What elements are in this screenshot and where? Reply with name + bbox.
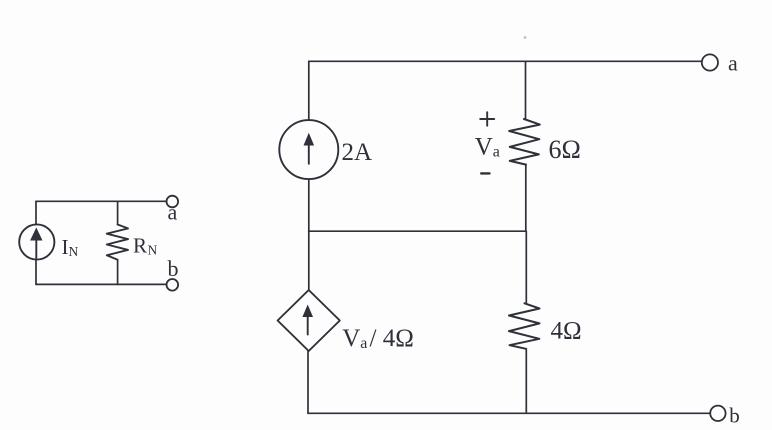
wire: middle horizontal (node between branches) <box>309 230 526 232</box>
wire: resistor branch vertical below 4ohm <box>525 349 527 414</box>
wire: left branch vertical below 2A source <box>308 179 310 231</box>
svg-text:b: b <box>168 256 179 281</box>
svg-text:6Ω: 6Ω <box>549 135 581 164</box>
wire: resistor branch vertical between middle node and 4ohm <box>525 231 527 303</box>
label Va / 4ohm <box>342 325 414 352</box>
wire: left circuit left vertical (top segment above source) <box>35 201 37 224</box>
label - (bottom of Va) <box>481 172 489 174</box>
label 2A <box>342 139 373 166</box>
wire: left circuit bottom horizontal <box>36 283 167 285</box>
terminal a (left circuit, open circle) <box>167 196 179 208</box>
label b (left circuit) <box>168 256 179 281</box>
svg-text:b: b <box>729 404 740 428</box>
wire: left branch vertical above 2A source <box>308 61 310 120</box>
label 6ohm <box>549 135 581 164</box>
label a (right circuit) <box>728 51 738 76</box>
svg-text:a: a <box>728 51 738 76</box>
dependent current source Va/4 (diamond with up arrow) <box>278 290 340 351</box>
svg-text:/: / <box>370 325 377 352</box>
svg-text:I: I <box>62 235 69 259</box>
current source 2A (circle with up arrow) <box>279 120 338 179</box>
resistor 6ohm (zigzag) <box>509 119 540 165</box>
wire: left circuit left vertical (below source) <box>35 260 37 285</box>
terminal b (left circuit, open circle) <box>167 279 179 291</box>
svg-text:N: N <box>69 244 79 259</box>
label RN <box>133 234 158 258</box>
terminal b (right circuit, open circle) <box>710 406 725 421</box>
svg-text:a: a <box>493 144 500 161</box>
label Va <box>475 134 500 161</box>
wire: left circuit resistor branch bottom lead <box>117 260 119 285</box>
svg-text:4Ω: 4Ω <box>383 325 414 352</box>
svg-text:V: V <box>342 325 360 352</box>
wire: resistor branch vertical between 6ohm and middle node <box>525 165 527 232</box>
svg-text:R: R <box>133 234 147 258</box>
resistor 4ohm (zigzag) <box>509 303 540 349</box>
svg-text:V: V <box>475 134 493 161</box>
current source IN (circle with up arrow) <box>19 224 54 259</box>
svg-text:a: a <box>360 335 367 352</box>
wire: left branch vertical below diamond <box>307 351 309 413</box>
scan speck artifact <box>524 36 527 39</box>
wire: left circuit top horizontal <box>36 200 167 202</box>
label IN <box>62 235 79 259</box>
svg-text:2A: 2A <box>342 139 373 166</box>
label a (left circuit) <box>168 200 178 225</box>
label b (right circuit) <box>729 404 740 428</box>
label 4ohm <box>551 318 582 345</box>
wire: left circuit resistor branch top lead <box>117 201 119 224</box>
svg-text:N: N <box>148 243 158 258</box>
svg-text:a: a <box>168 200 178 225</box>
wire: right circuit bottom horizontal <box>308 412 710 414</box>
terminal a (right circuit, open circle) <box>702 54 718 70</box>
wire: resistor branch vertical above 6ohm <box>525 61 527 119</box>
wire: right circuit top horizontal <box>309 60 702 62</box>
wire: left branch vertical below middle node to diamond <box>308 231 310 290</box>
svg-text:4Ω: 4Ω <box>551 318 582 345</box>
resistor RN (zigzag) <box>107 225 128 260</box>
label + (top of Va) <box>480 112 494 126</box>
